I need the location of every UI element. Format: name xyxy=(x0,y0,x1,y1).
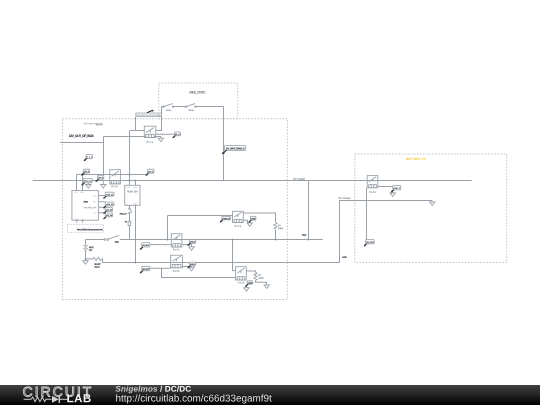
resistor R1 xyxy=(274,223,277,230)
wire VDC top pin left xyxy=(76,175,78,191)
wire PS+ charger drop xyxy=(308,181,310,240)
wire R1 lower lead xyxy=(275,229,277,239)
label BMS xyxy=(84,201,88,203)
wire GND bus xyxy=(103,262,340,264)
logo word CIRCUIT xyxy=(23,387,91,397)
box RCM 12V xyxy=(125,185,140,205)
ground RL4 coil xyxy=(247,223,252,227)
flag node 12V_K xyxy=(148,169,155,173)
switch SW2a xyxy=(163,106,164,107)
wire RL3 coil right stub xyxy=(378,186,393,188)
wire RL4 output xyxy=(243,213,275,223)
label SWITCHES AND BINS xyxy=(83,123,103,125)
label MAIN_SWITCH_ON xyxy=(84,207,96,209)
label PS- Charger xyxy=(339,197,351,199)
label RL1b xyxy=(111,186,117,188)
label F1 xyxy=(125,221,127,223)
wire bilge row xyxy=(162,268,236,277)
label SW_IN xyxy=(96,124,102,126)
flag node GND4 xyxy=(250,216,256,220)
wire PS- charger xyxy=(340,200,433,202)
wire RL1a output riser xyxy=(156,107,162,131)
flag texts xyxy=(87,156,92,158)
wire node A vertical xyxy=(103,137,105,177)
wire RL2a coil gnd stub xyxy=(182,245,192,247)
flag node GND_2 xyxy=(189,240,195,244)
wire RL3 coil left drop xyxy=(366,188,368,240)
wire RCM right drop xyxy=(135,205,137,262)
label RL2b xyxy=(173,270,179,272)
fuse F1 xyxy=(128,221,131,225)
label BATT BOX PV orange xyxy=(406,158,426,160)
flag arrowheads xyxy=(84,159,86,161)
wire RCM left drop with switch gap xyxy=(129,205,131,239)
flag node 12V_3 xyxy=(105,208,112,212)
footer bar xyxy=(0,385,540,405)
wire RL1a coil feed xyxy=(104,136,161,138)
label RL1a xyxy=(147,141,153,143)
flag node hej xyxy=(86,155,92,159)
footer url xyxy=(116,394,272,403)
label SW1 xyxy=(115,241,119,243)
wire safe-state drop xyxy=(223,107,225,181)
dashed box BATT BOX region xyxy=(355,154,507,263)
label RL3a xyxy=(369,191,375,193)
label GND charger xyxy=(302,234,306,236)
relay RL4 xyxy=(233,211,244,222)
dashed box SAFE_STATE region xyxy=(159,83,238,119)
ground RL3 coil xyxy=(390,190,395,196)
flag node 12V_1 xyxy=(105,192,114,196)
wire VDC bottom stubs xyxy=(77,220,83,222)
flag node RL_A xyxy=(174,132,180,136)
label RCM 12V xyxy=(127,191,137,193)
label SW3a xyxy=(188,110,193,111)
flag node 12V_2 xyxy=(105,202,114,206)
wire battery stem xyxy=(85,240,87,259)
relay RL2b xyxy=(171,255,183,268)
logo wire lead right xyxy=(59,398,68,400)
label BAT1 12V xyxy=(89,247,94,249)
label RL5b xyxy=(238,282,244,284)
wire battery bus xyxy=(86,239,323,241)
wire flag riser xyxy=(135,117,137,131)
ground below bus node xyxy=(101,180,106,188)
flag node GND_C xyxy=(393,186,401,190)
switch SW1_LP xyxy=(129,208,130,209)
relay RL3 xyxy=(367,176,378,188)
wire RCM left riser xyxy=(129,131,131,186)
pin labels RCM xyxy=(126,187,130,188)
flag node 12V_4 xyxy=(105,213,112,217)
resistor SHUNT xyxy=(93,257,101,260)
flag node 12V_BLG xyxy=(142,243,150,247)
dashed note box xyxy=(68,224,104,232)
pin labels VDC xyxy=(74,192,78,193)
flag node charge_rly xyxy=(222,216,231,220)
ground battery xyxy=(83,259,88,264)
switch SW3a xyxy=(185,106,186,107)
wire charger minus riser xyxy=(339,201,341,263)
flag node 12V_PMP xyxy=(142,266,150,270)
wire RL1a aux flag stub xyxy=(156,133,175,135)
ground RL2b coil xyxy=(189,267,194,271)
flag node GND_3 xyxy=(189,262,195,266)
wire shunt row xyxy=(86,259,103,263)
relay RL1b xyxy=(110,170,121,184)
logo resistor zigzag xyxy=(31,397,51,402)
switch SW1 xyxy=(104,239,106,241)
wire RL1b row xyxy=(77,174,146,176)
footer title user xyxy=(115,386,157,394)
wire charger relay row xyxy=(168,215,233,217)
wire RL1a switch input xyxy=(130,130,145,132)
box VDC BMS xyxy=(72,191,99,221)
label note text xyxy=(77,229,103,231)
label SHUNT R0.01 xyxy=(94,263,100,265)
wire 12V_OUT_OF_BOX xyxy=(60,141,104,143)
ground R2 xyxy=(264,285,269,289)
logo word LAB xyxy=(67,394,90,402)
wire VDC top pin right xyxy=(82,173,84,191)
relay RL1a xyxy=(144,126,156,137)
relay RL5 xyxy=(236,267,247,280)
wire RL2a coil feed xyxy=(150,244,172,246)
footer title circuit name xyxy=(160,386,191,392)
wire RL5 input drop xyxy=(233,240,236,271)
wire main 12V bus xyxy=(33,180,472,182)
ground at RL1a xyxy=(158,136,163,141)
ground RL2a coil xyxy=(189,247,194,251)
label 12V_OUT_OF_BOX xyxy=(69,135,94,138)
wire SAFE_STATE switch segments xyxy=(162,106,224,108)
battery BAT1 xyxy=(83,246,88,251)
wire RL5 output xyxy=(246,271,255,272)
ground PS- charger xyxy=(430,201,435,206)
label GND charger2 xyxy=(342,256,346,258)
flag arrows xyxy=(84,158,87,160)
flag node 12V_SAFE_DRIVE_B xyxy=(224,146,245,151)
flag node GND5 xyxy=(247,281,253,284)
relay RL2a xyxy=(171,234,182,247)
label SW1_LP xyxy=(120,213,127,215)
wire RL2b coil gnd stub xyxy=(182,266,191,269)
label R1 value xyxy=(278,225,281,227)
flag node 12V_CHG xyxy=(366,240,375,244)
wire charger relay drop xyxy=(167,216,169,240)
logo wire lead left xyxy=(24,398,32,400)
wire RL4 coil stub xyxy=(243,220,247,223)
flag node 12V_B xyxy=(83,169,90,173)
flag node 12V_S xyxy=(98,175,104,179)
ground RL5 coil xyxy=(244,285,249,291)
wire R2 lower lead xyxy=(256,280,267,284)
label RL2a xyxy=(173,249,179,251)
label SAFE_STATE xyxy=(189,91,205,94)
label R2 value xyxy=(259,274,262,276)
wire RL2b coil feed xyxy=(150,267,171,269)
label RL4a xyxy=(235,225,241,227)
resistor R2 xyxy=(254,272,257,280)
ground below DBLAD flag xyxy=(86,183,91,188)
flag node DBLAD xyxy=(83,178,92,182)
label SW2a xyxy=(166,110,171,111)
wire RCM right stub xyxy=(135,181,137,186)
logo diode triangle xyxy=(52,396,59,403)
logo diode cathode bar xyxy=(58,396,60,403)
dashed box SWITCHES AND BINS region xyxy=(62,119,287,300)
junction nodes xyxy=(129,174,131,176)
wire VDC right pin stubs xyxy=(98,196,105,213)
flag label boat switches xyxy=(136,113,162,116)
label PS+ Charger xyxy=(293,178,305,180)
